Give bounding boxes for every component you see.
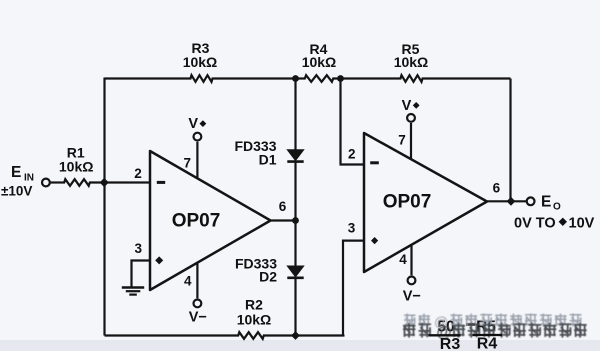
svg-text:10kΩ: 10kΩ [237,311,272,327]
svg-text:V: V [188,116,198,132]
svg-text:10kΩ: 10kΩ [394,54,429,70]
svg-text:E: E [11,164,21,181]
svg-text:10kΩ: 10kΩ [59,159,94,175]
svg-text:4: 4 [184,273,192,288]
svg-text:3: 3 [348,220,356,235]
svg-text:D2: D2 [259,269,277,285]
svg-text:10kΩ: 10kΩ [183,54,218,70]
svg-text:0V TO: 0V TO [514,216,556,232]
svg-text:IN: IN [24,173,34,184]
svg-text:±10V: ±10V [1,183,32,198]
svg-text:OP07: OP07 [172,211,221,232]
svg-text:V−: V− [189,309,207,325]
svg-text:R3: R3 [440,336,461,351]
svg-text:R2: R2 [245,296,263,312]
svg-text:2: 2 [134,166,142,181]
svg-text:3: 3 [134,241,142,256]
svg-text:10kΩ: 10kΩ [302,54,337,70]
svg-text:V−: V− [403,289,421,305]
svg-text:D1: D1 [259,151,277,167]
svg-text:OP07: OP07 [383,191,432,212]
svg-text:4: 4 [399,252,407,267]
svg-text:7: 7 [183,156,191,171]
svg-text:10V: 10V [569,216,595,232]
svg-text:7: 7 [398,133,406,148]
svg-text:6: 6 [279,199,287,214]
svg-text:R4: R4 [477,335,498,351]
svg-text:6: 6 [493,181,501,196]
svg-text:E: E [541,194,551,211]
svg-text:O: O [553,202,561,213]
svg-text:V: V [402,98,412,114]
svg-text:2: 2 [348,146,356,161]
